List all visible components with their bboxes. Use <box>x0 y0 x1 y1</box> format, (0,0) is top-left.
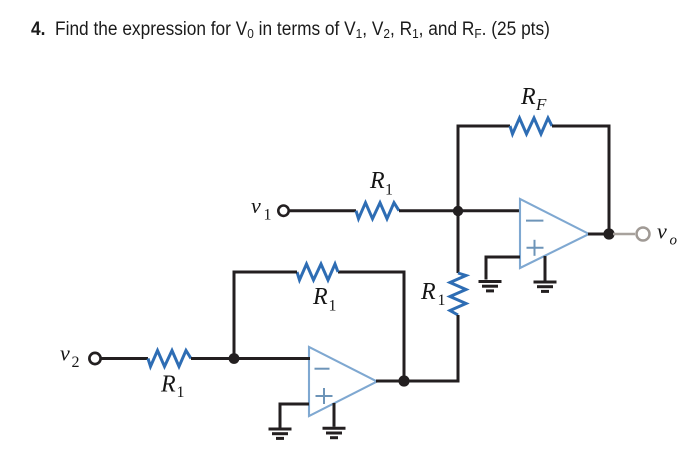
wire RF top left horizontal <box>457 125 511 128</box>
wire U1 feedback left vertical <box>233 272 236 359</box>
wire v2 terminal to R1 <box>101 357 148 360</box>
svg-text:1: 1 <box>329 298 337 315</box>
wire U2 noninverting input <box>486 257 520 280</box>
problem statement text <box>31 19 550 41</box>
svg-text:1: 1 <box>177 384 185 401</box>
node D junction dot (v2 summing node) <box>229 353 240 364</box>
svg-text:o: o <box>670 233 678 249</box>
wire node C to vertical R1 horizontal <box>404 380 460 383</box>
terminal v2 <box>89 353 100 364</box>
svg-text:R: R <box>312 284 328 310</box>
wire node A down to vertical R1 <box>457 211 460 273</box>
wire U1 output to node C <box>376 380 404 383</box>
wire U1 feedback top right horizontal <box>338 271 406 274</box>
ground (U1 + input) <box>269 429 292 438</box>
label R1 (U1 feedback) <box>312 284 337 315</box>
label RF <box>520 84 547 114</box>
label v2 <box>60 341 80 372</box>
node C junction dot (U1 output) <box>398 375 409 386</box>
svg-text:F: F <box>535 95 547 114</box>
node A junction dot <box>453 206 463 216</box>
label R1 (vertical resistor) <box>420 279 446 309</box>
svg-text:v: v <box>251 193 261 218</box>
wire RF loop right vertical <box>608 126 611 234</box>
svg-text:2: 2 <box>72 354 80 371</box>
svg-text:R: R <box>160 372 176 398</box>
terminal v1 <box>278 206 288 216</box>
label v1 <box>251 193 272 224</box>
terminal vo <box>637 228 650 241</box>
wire U1 feedback top left horizontal <box>233 271 298 274</box>
resistor R1 (v1 input) <box>356 203 399 219</box>
svg-text:R: R <box>420 279 436 305</box>
resistor RF <box>510 118 552 134</box>
label vo <box>657 219 678 249</box>
wire v1 terminal to R1 <box>289 209 356 212</box>
ground (U2 lower) <box>534 282 557 291</box>
resistor R1 (U1 feedback) <box>297 264 338 280</box>
wire v2 R1 to node D <box>191 357 234 360</box>
node B junction dot (U2 output) <box>603 228 614 239</box>
wire R1 to node A <box>399 209 458 212</box>
wire U2 output to node B <box>588 233 611 236</box>
wire RF top right horizontal <box>552 125 611 128</box>
svg-text:1: 1 <box>438 292 446 309</box>
svg-text:1: 1 <box>264 207 272 224</box>
op-amp U2 <box>520 199 589 268</box>
op-amp U1 <box>309 347 377 416</box>
wire vertical R1 down to node C <box>457 315 460 383</box>
wire RF loop left vertical <box>457 126 460 211</box>
resistor R1 (vertical) <box>450 273 466 315</box>
wire node D to U1 inverting input <box>234 357 310 360</box>
wire U2 lower pin to ground <box>544 256 547 281</box>
svg-text:R: R <box>369 168 385 194</box>
svg-text:1: 1 <box>385 182 393 199</box>
wire gray to vo terminal <box>613 233 635 236</box>
svg-text:v: v <box>657 219 667 244</box>
svg-text:R: R <box>520 84 536 110</box>
label R1 (v1 input) <box>369 168 393 199</box>
wire U1 noninverting input <box>280 404 309 428</box>
wire U1 lower pin to ground <box>333 403 336 427</box>
wire U1 feedback right vertical <box>403 272 406 381</box>
svg-text:v: v <box>60 341 70 366</box>
resistor R1 (v2 input) <box>148 351 191 367</box>
wire node A to op-amp U2 inverting input <box>458 209 521 212</box>
ground (U1 lower) <box>323 428 346 437</box>
ground (U2 + input) <box>479 282 502 291</box>
label R1 (v2 input) <box>160 372 185 402</box>
